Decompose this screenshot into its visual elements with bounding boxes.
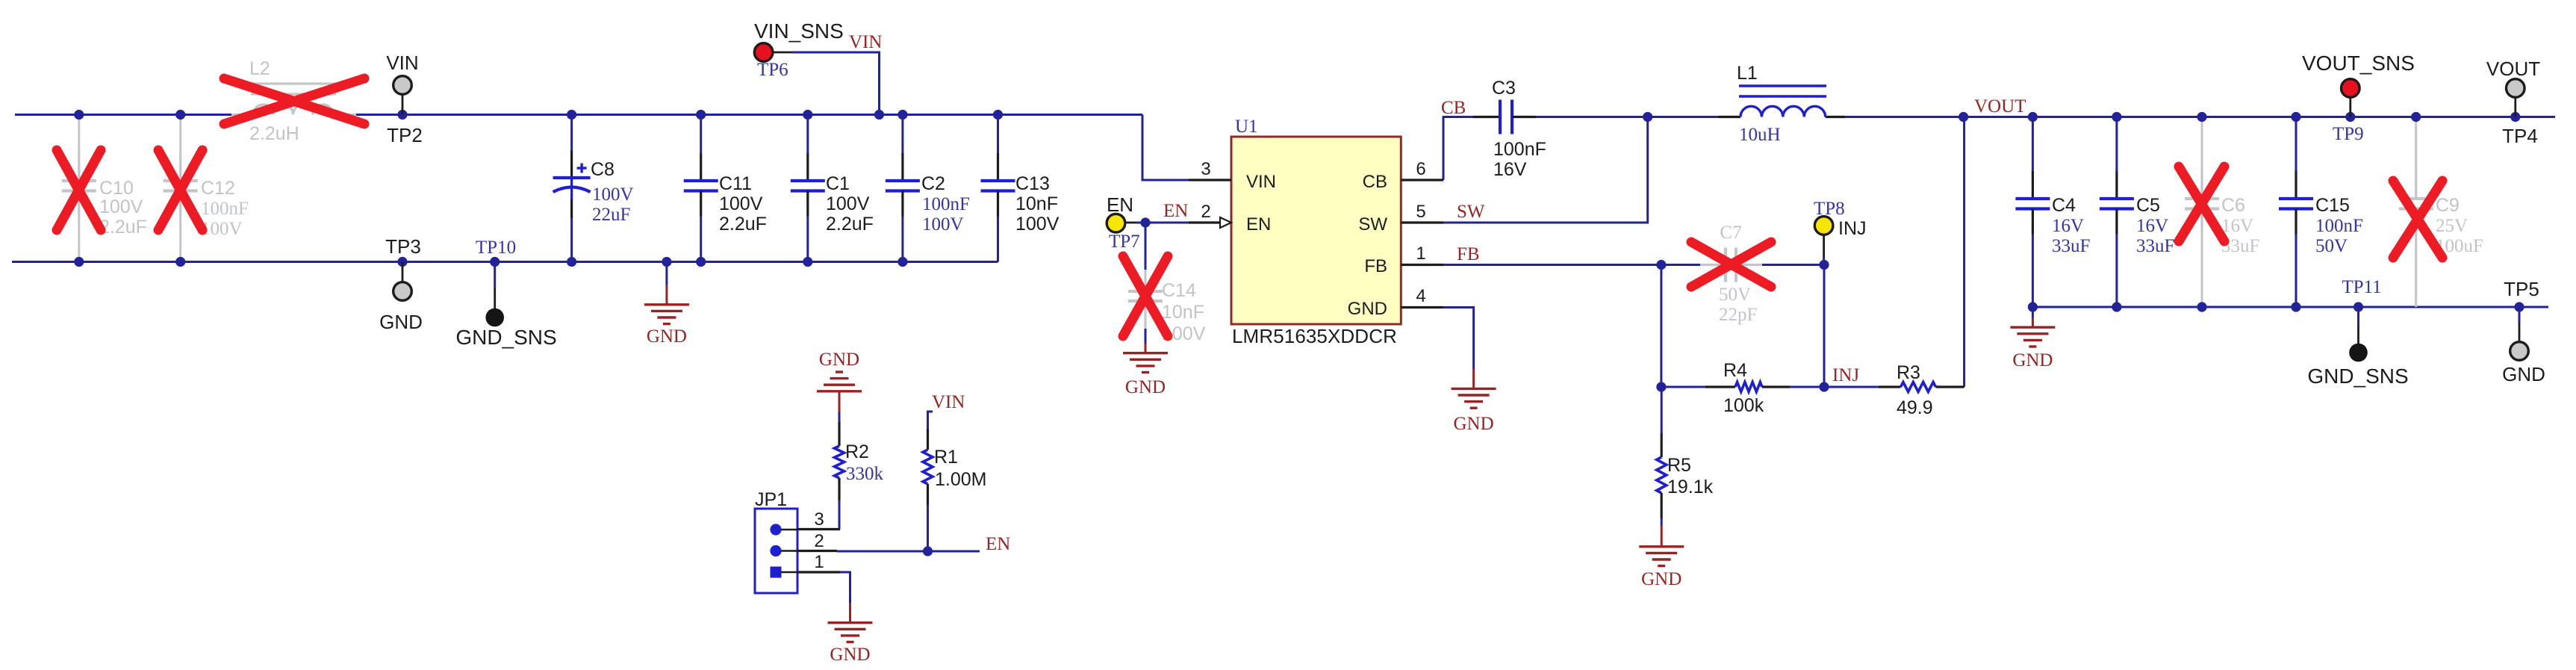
svg-text:GND: GND bbox=[1454, 414, 1494, 434]
wire R5 top from R4 line bbox=[1661, 387, 1663, 433]
svg-text:VOUT_SNS: VOUT_SNS bbox=[2302, 52, 2415, 75]
svg-text:EN: EN bbox=[1107, 193, 1133, 216]
wire R3 to VOUT riser bbox=[1963, 117, 1965, 388]
wire VIN_SNS from TP6 to top rail bbox=[792, 52, 880, 115]
svg-text:49.9: 49.9 bbox=[1897, 397, 1933, 418]
svg-text:2: 2 bbox=[814, 531, 824, 551]
svg-text:33uF: 33uF bbox=[2052, 236, 2090, 256]
svg-text:L2: L2 bbox=[249, 58, 270, 79]
U1 pin 5 SW bbox=[1401, 221, 1443, 223]
svg-text:TP9: TP9 bbox=[2333, 124, 2364, 144]
svg-text:50V: 50V bbox=[2315, 236, 2348, 256]
capacitor C10 (DNP, greyed) bbox=[78, 115, 80, 154]
svg-text:FB: FB bbox=[1364, 256, 1387, 276]
X mark over C7 bbox=[1691, 242, 1771, 287]
wire R1 net flag VIN bbox=[928, 412, 933, 429]
svg-text:LMR51635XDDCR: LMR51635XDDCR bbox=[1232, 325, 1397, 347]
svg-text:GND_SNS: GND_SNS bbox=[2307, 365, 2408, 388]
X mark over C10 bbox=[57, 150, 101, 230]
X mark over C14 bbox=[1123, 256, 1168, 336]
ground symbol at U1 GND pin bbox=[1472, 369, 1475, 388]
svg-text:C10: C10 bbox=[99, 178, 134, 199]
capacitor C11 bbox=[700, 115, 702, 154]
svg-text:100nF: 100nF bbox=[201, 199, 249, 219]
capacitor C4 bbox=[2032, 117, 2034, 172]
svg-text:100k: 100k bbox=[1723, 395, 1764, 416]
svg-text:C2: C2 bbox=[921, 173, 945, 194]
svg-text:EN: EN bbox=[1246, 214, 1271, 235]
X mark over C6 bbox=[2179, 167, 2224, 241]
svg-text:VOUT: VOUT bbox=[1974, 96, 2026, 117]
JP1 pin 2 stub bbox=[797, 550, 837, 552]
svg-text:2.2uF: 2.2uF bbox=[826, 214, 874, 235]
svg-text:GND: GND bbox=[1348, 299, 1387, 319]
svg-text:100V: 100V bbox=[719, 193, 763, 214]
U1 pin 1 FB bbox=[1401, 264, 1443, 266]
svg-text:VOUT: VOUT bbox=[2486, 58, 2540, 80]
svg-text:TP2: TP2 bbox=[387, 124, 423, 146]
svg-text:R4: R4 bbox=[1723, 360, 1747, 381]
svg-text:3: 3 bbox=[814, 509, 824, 530]
svg-text:22uF: 22uF bbox=[592, 205, 630, 225]
capacitor C12 (DNP, greyed) bbox=[179, 115, 181, 154]
junction dot EN node at TP7 bbox=[1140, 217, 1150, 227]
test point TP7 (EN) bbox=[1125, 222, 1136, 224]
svg-text:GND: GND bbox=[379, 311, 423, 333]
junction dots FB line bbox=[1656, 260, 1666, 270]
svg-text:GND_SNS: GND_SNS bbox=[455, 326, 556, 349]
svg-text:100V: 100V bbox=[592, 184, 634, 205]
junction dots output bottom rail bbox=[2028, 302, 2038, 311]
svg-text:R1: R1 bbox=[934, 447, 958, 468]
svg-text:JP1: JP1 bbox=[755, 489, 787, 510]
svg-text:330k: 330k bbox=[846, 464, 884, 484]
svg-text:1.00M: 1.00M bbox=[935, 469, 986, 490]
svg-text:VIN: VIN bbox=[932, 392, 965, 412]
resistor R5 19.1k bbox=[1661, 433, 1663, 457]
svg-text:2: 2 bbox=[1201, 202, 1210, 222]
svg-text:VIN_SNS: VIN_SNS bbox=[754, 19, 844, 43]
wire drop to U1 VIN pin bbox=[1142, 115, 1189, 181]
svg-text:25V: 25V bbox=[2436, 216, 2468, 236]
svg-text:3: 3 bbox=[1201, 159, 1210, 179]
junction dots input top rail bbox=[74, 110, 84, 120]
svg-text:100nF: 100nF bbox=[1493, 139, 1546, 160]
svg-text:C4: C4 bbox=[2052, 195, 2076, 216]
ground symbol under input bottom rail bbox=[665, 285, 668, 305]
svg-text:VIN: VIN bbox=[1246, 172, 1276, 192]
junction dots input bottom rail bbox=[74, 257, 84, 267]
svg-text:TP5: TP5 bbox=[2504, 278, 2539, 300]
test point TP8 (INJ) bbox=[1823, 235, 1825, 257]
svg-text:R2: R2 bbox=[845, 441, 869, 462]
resistor R2 330k bbox=[838, 422, 840, 446]
ground symbol under R5 bbox=[1661, 526, 1663, 547]
svg-text:R3: R3 bbox=[1897, 362, 1920, 383]
svg-text:10uH: 10uH bbox=[1739, 125, 1781, 145]
capacitor C1 bbox=[806, 115, 809, 154]
wire JP1 pin 1 to ground bbox=[840, 572, 850, 603]
wire R4 left lead from node bbox=[1661, 386, 1705, 388]
U1 pin 6 CB bbox=[1401, 179, 1443, 181]
svg-text:16V: 16V bbox=[2052, 216, 2084, 236]
svg-text:C11: C11 bbox=[719, 173, 752, 194]
wire output bottom rail (GND) bbox=[2032, 306, 2548, 308]
jumper header JP1 bbox=[755, 509, 797, 593]
junction dots R4/INJ line bbox=[1656, 382, 1666, 391]
svg-text:TP7: TP7 bbox=[1109, 232, 1140, 252]
test point TP10 (GND_SNS) bbox=[494, 262, 496, 289]
svg-text:VIN: VIN bbox=[386, 52, 418, 74]
capacitor C9 (DNP, greyed) bbox=[2415, 117, 2417, 173]
capacitor C15 bbox=[2295, 117, 2297, 172]
resistor R3 49.9 bbox=[1879, 385, 1901, 388]
capacitor C7 (DNP, greyed, horizontal) bbox=[1700, 264, 1726, 266]
svg-text:16V: 16V bbox=[2136, 216, 2168, 236]
svg-text:TP8: TP8 bbox=[1814, 199, 1845, 219]
svg-text:GND: GND bbox=[647, 326, 687, 347]
junction dots VOUT rail bbox=[1643, 112, 1652, 122]
test point TP3 (GND) bbox=[402, 262, 404, 283]
U1 pin 4 GND bbox=[1401, 306, 1443, 308]
wire C4 junction to ground stub bbox=[2032, 307, 2034, 317]
capacitor C14 (DNP, greyed) bbox=[1144, 270, 1146, 291]
svg-text:C8: C8 bbox=[591, 159, 615, 180]
resistor R4 100k bbox=[1705, 385, 1735, 388]
wire C7 right to INJ node bbox=[1762, 264, 1824, 266]
svg-text:100V: 100V bbox=[99, 196, 143, 217]
svg-text:C12: C12 bbox=[201, 178, 235, 199]
svg-text:C14: C14 bbox=[1162, 280, 1196, 301]
svg-text:100V: 100V bbox=[201, 219, 243, 239]
wire input top rail right of L2 to U1 corner bbox=[356, 114, 1142, 116]
capacitor C8 (polarized electrolytic) bbox=[570, 115, 573, 152]
wire input top rail left segment (VIN) bbox=[15, 114, 231, 116]
svg-text:2.2uF: 2.2uF bbox=[99, 217, 147, 238]
svg-text:C7: C7 bbox=[1720, 223, 1741, 243]
capacitor C13 bbox=[997, 115, 999, 154]
svg-text:33uF: 33uF bbox=[2136, 236, 2174, 256]
svg-text:10nF: 10nF bbox=[1162, 302, 1204, 323]
svg-text:L1: L1 bbox=[1737, 63, 1758, 84]
wire R2 top from GND bbox=[839, 412, 841, 422]
svg-text:INJ: INJ bbox=[1832, 365, 1859, 385]
wire EN from TP7 junction to U1 EN pin bbox=[1136, 222, 1189, 224]
X mark over C12 bbox=[158, 150, 202, 230]
capacitor C5 bbox=[2115, 117, 2118, 172]
wire SW pin to riser bbox=[1443, 117, 1648, 223]
svg-text:C5: C5 bbox=[2136, 195, 2160, 216]
wire node to L1 bbox=[1648, 116, 1719, 118]
inductor L2 (DNP, greyed) bbox=[231, 114, 253, 116]
svg-text:5: 5 bbox=[1416, 202, 1425, 222]
svg-text:SW: SW bbox=[1457, 202, 1485, 222]
svg-text:1: 1 bbox=[814, 552, 824, 572]
U1 pin 3 VIN bbox=[1189, 179, 1231, 181]
wire U1 GND pin to ground bbox=[1443, 308, 1474, 370]
svg-text:1: 1 bbox=[1416, 244, 1425, 264]
X mark over L2 bbox=[224, 78, 364, 124]
junction dot EN at R1/JP1 bbox=[923, 546, 933, 556]
wire INJ node down to R4/R3 line bbox=[1823, 273, 1826, 388]
ground symbol under C14 bbox=[1145, 344, 1147, 353]
svg-text:VIN: VIN bbox=[849, 32, 882, 52]
svg-text:C15: C15 bbox=[2315, 195, 2350, 216]
JP1 pin 3 stub bbox=[797, 528, 840, 530]
svg-text:6: 6 bbox=[1416, 159, 1425, 179]
svg-text:100V: 100V bbox=[1015, 214, 1060, 235]
wire C14 bottom to ground bbox=[1145, 329, 1147, 344]
wire C3 to SW/L1 node bbox=[1536, 116, 1648, 118]
ground symbol under C4 output rail bbox=[2032, 317, 2034, 327]
svg-text:2.2uH: 2.2uH bbox=[249, 123, 299, 144]
svg-text:TP11: TP11 bbox=[2342, 277, 2381, 297]
svg-text:GND: GND bbox=[2502, 363, 2545, 385]
svg-text:TP10: TP10 bbox=[476, 238, 516, 258]
svg-text:100nF: 100nF bbox=[2315, 216, 2363, 236]
svg-text:TP4: TP4 bbox=[2502, 125, 2538, 147]
test point TP11 (GND_SNS) bbox=[2357, 307, 2359, 326]
svg-text:10nF: 10nF bbox=[1015, 193, 1058, 214]
svg-text:16V: 16V bbox=[1493, 159, 1527, 180]
X mark over C9 bbox=[2393, 181, 2442, 258]
wire CB pin to C3 bbox=[1443, 117, 1473, 181]
svg-text:EN: EN bbox=[986, 534, 1010, 554]
ground symbol above R2 (inverted) bbox=[839, 391, 841, 412]
wire JP1 pin 2 to EN label bbox=[837, 550, 980, 553]
svg-text:FB: FB bbox=[1457, 244, 1480, 264]
svg-text:INJ: INJ bbox=[1838, 218, 1867, 239]
svg-text:16V: 16V bbox=[2221, 216, 2253, 236]
wire VOUT rail from L1 to right edge bbox=[1846, 116, 2555, 118]
test point TP9 (VOUT_SNS) bbox=[2349, 97, 2351, 117]
svg-text:EN: EN bbox=[1163, 201, 1188, 221]
svg-text:U1: U1 bbox=[1235, 117, 1258, 137]
svg-text:100V: 100V bbox=[922, 214, 964, 235]
svg-text:TP3: TP3 bbox=[385, 235, 421, 258]
svg-text:100nF: 100nF bbox=[922, 194, 970, 214]
wire R2 bottom to JP1 pin 3 bbox=[839, 500, 840, 530]
svg-text:GND: GND bbox=[1125, 377, 1166, 397]
svg-text:GND: GND bbox=[819, 350, 859, 370]
test point TP2 (VIN) bbox=[402, 94, 404, 115]
wire GND stub under input rail bbox=[665, 262, 668, 285]
svg-text:4: 4 bbox=[1416, 286, 1425, 306]
JP1 pin 1 stub bbox=[797, 571, 840, 573]
wire INJ junction to R3 bbox=[1824, 386, 1879, 388]
svg-text:C13: C13 bbox=[1015, 173, 1050, 194]
wire FB node down to R4 line bbox=[1660, 265, 1662, 388]
inductor L1 bbox=[1719, 116, 1741, 118]
test point TP4 (VOUT) bbox=[2514, 97, 2516, 117]
svg-text:50V: 50V bbox=[1719, 285, 1751, 305]
resistor R1 1.00M bbox=[927, 429, 929, 450]
svg-text:2.2uF: 2.2uF bbox=[719, 214, 767, 235]
wire R5 bottom to GND bbox=[1661, 518, 1663, 526]
svg-text:C6: C6 bbox=[2221, 195, 2245, 216]
test point TP6 (VIN_SNS) bbox=[773, 52, 792, 54]
wire R1 bottom to EN line bbox=[927, 505, 929, 551]
capacitor C3 (CB bootstrap) bbox=[1473, 116, 1500, 118]
svg-text:C9: C9 bbox=[2436, 195, 2460, 216]
svg-text:SW: SW bbox=[1358, 214, 1387, 235]
ground symbol under JP1 pin 1 bbox=[849, 603, 851, 623]
svg-text:GND: GND bbox=[1641, 569, 1681, 589]
test point TP5 (GND) bbox=[2519, 307, 2521, 322]
U1 pin 2 EN with input triangle bbox=[1189, 221, 1220, 223]
svg-text:22pF: 22pF bbox=[1719, 305, 1757, 325]
svg-text:100V: 100V bbox=[826, 193, 870, 214]
svg-text:C1: C1 bbox=[826, 173, 850, 194]
svg-text:TP6: TP6 bbox=[757, 60, 788, 80]
svg-text:GND: GND bbox=[830, 645, 870, 665]
svg-text:GND: GND bbox=[2012, 350, 2053, 370]
capacitor C6 (DNP, greyed) bbox=[2201, 117, 2203, 173]
capacitor C2 bbox=[901, 115, 903, 154]
wire EN junction down to C14 bbox=[1145, 223, 1147, 270]
svg-text:19.1k: 19.1k bbox=[1667, 477, 1714, 497]
op-amp U1 LMR51635XDDCR buck converter IC bbox=[1231, 137, 1401, 324]
wire FB pin to C7 left bbox=[1443, 264, 1700, 266]
svg-text:CB: CB bbox=[1363, 172, 1387, 192]
svg-text:C3: C3 bbox=[1492, 78, 1516, 99]
svg-text:R5: R5 bbox=[1667, 455, 1691, 476]
wire input bottom rail (GND) bbox=[12, 261, 998, 263]
wire R4 right lead to INJ junction bbox=[1790, 386, 1824, 388]
svg-text:CB: CB bbox=[1441, 98, 1466, 118]
